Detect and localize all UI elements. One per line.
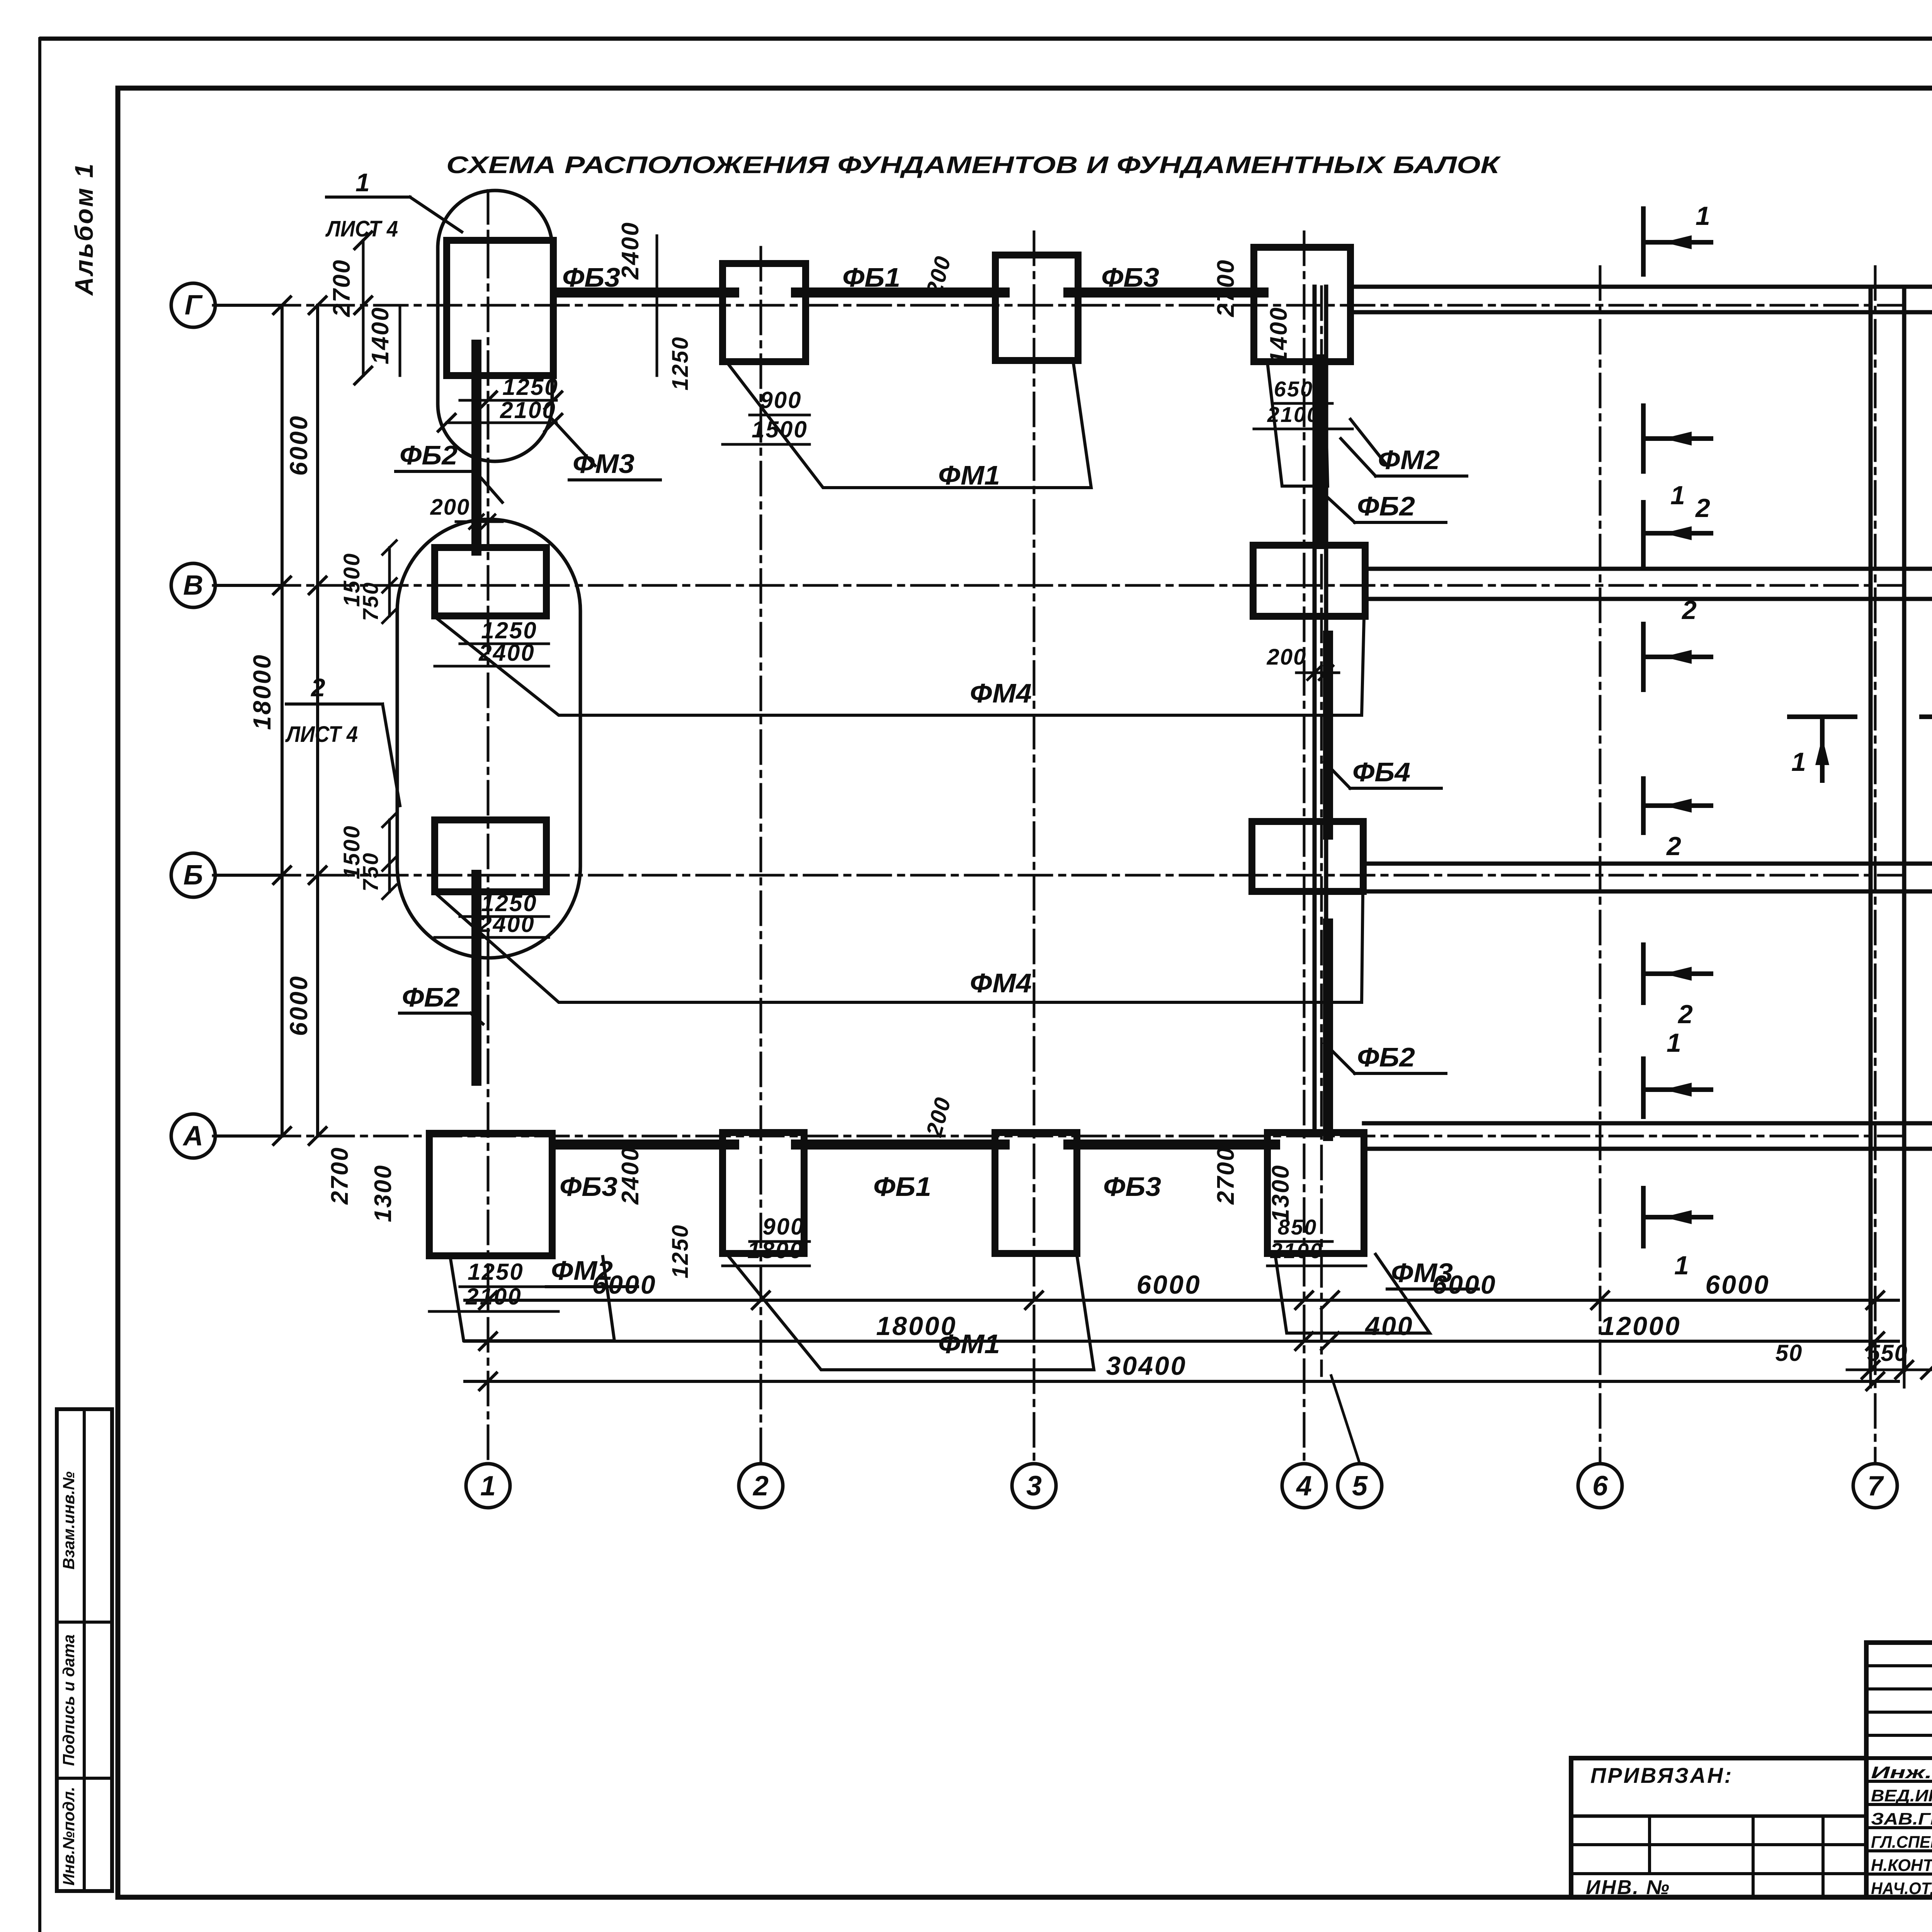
svg-text:2700: 2700 [328, 259, 355, 317]
svg-text:1: 1 [480, 1471, 496, 1502]
svg-text:ФБ3: ФБ3 [562, 262, 620, 293]
svg-text:ФМ3: ФМ3 [1391, 1258, 1453, 1288]
svg-text:2700: 2700 [1213, 1146, 1239, 1205]
svg-text:ФБ4: ФБ4 [1352, 757, 1410, 787]
svg-text:ЗАВ.ГР.: ЗАВ.ГР. [1871, 1810, 1932, 1828]
svg-text:2700: 2700 [1213, 259, 1239, 317]
svg-text:ФМ4: ФМ4 [970, 678, 1032, 708]
svg-text:2: 2 [1666, 832, 1681, 861]
svg-text:2: 2 [752, 1471, 769, 1502]
svg-text:В: В [183, 570, 203, 601]
svg-text:ФМ1: ФМ1 [938, 1329, 1000, 1359]
svg-text:2: 2 [310, 673, 325, 702]
svg-text:2: 2 [1677, 1000, 1693, 1029]
svg-text:1500: 1500 [752, 417, 808, 442]
svg-text:Н.КОНТР.: Н.КОНТР. [1871, 1856, 1932, 1875]
svg-text:Альбом 1: Альбом 1 [70, 162, 98, 296]
svg-text:ФМ2: ФМ2 [551, 1255, 613, 1286]
svg-text:1: 1 [1696, 201, 1710, 231]
svg-text:2400: 2400 [478, 640, 535, 666]
svg-text:200: 200 [1267, 645, 1307, 670]
svg-text:1800: 1800 [747, 1237, 803, 1263]
svg-text:Б: Б [184, 860, 203, 891]
svg-text:50: 50 [1776, 1340, 1803, 1366]
svg-text:1250: 1250 [502, 374, 558, 400]
svg-text:1400: 1400 [1265, 306, 1292, 364]
svg-text:550: 550 [1867, 1340, 1908, 1366]
svg-text:ГЛ.СПЕЦ.: ГЛ.СПЕЦ. [1871, 1833, 1932, 1852]
svg-text:ПРИВЯЗАН:: ПРИВЯЗАН: [1590, 1763, 1733, 1787]
svg-text:ФБ2: ФБ2 [1357, 491, 1415, 521]
svg-text:4: 4 [1296, 1471, 1312, 1502]
svg-text:1300: 1300 [1267, 1164, 1294, 1222]
svg-text:Г: Г [185, 290, 203, 321]
svg-text:2: 2 [1681, 595, 1697, 625]
svg-text:900: 900 [762, 1214, 804, 1240]
svg-text:6000: 6000 [285, 415, 313, 476]
svg-text:1250: 1250 [468, 1259, 524, 1285]
svg-text:2: 2 [1695, 493, 1710, 523]
svg-text:12000: 12000 [1600, 1311, 1681, 1341]
svg-text:1: 1 [1674, 1251, 1689, 1280]
svg-text:2400: 2400 [617, 1146, 644, 1205]
svg-text:2700: 2700 [327, 1146, 353, 1205]
svg-text:3: 3 [1026, 1471, 1042, 1502]
svg-text:ФБ3: ФБ3 [560, 1172, 617, 1202]
svg-text:2100: 2100 [1267, 402, 1320, 427]
svg-text:2400: 2400 [617, 221, 644, 280]
svg-text:400: 400 [1364, 1311, 1413, 1341]
svg-text:7: 7 [1867, 1471, 1884, 1502]
svg-text:ФБ2: ФБ2 [1357, 1042, 1415, 1072]
svg-text:ФБ1: ФБ1 [842, 262, 900, 293]
svg-text:ФБ3: ФБ3 [1103, 1172, 1161, 1202]
svg-text:2100: 2100 [500, 397, 556, 423]
svg-text:1250: 1250 [668, 1224, 693, 1278]
svg-text:1300: 1300 [370, 1164, 396, 1222]
svg-text:850: 850 [1278, 1215, 1317, 1239]
svg-text:900: 900 [760, 387, 802, 413]
svg-text:750: 750 [358, 852, 383, 891]
svg-text:ФМ4: ФМ4 [970, 968, 1032, 998]
svg-text:ФМ1: ФМ1 [938, 460, 1000, 490]
svg-text:ВЕД.ИН.: ВЕД.ИН. [1871, 1786, 1932, 1805]
svg-text:2100: 2100 [465, 1284, 522, 1310]
svg-text:6: 6 [1592, 1471, 1608, 1502]
svg-text:НАЧ.ОТД.: НАЧ.ОТД. [1871, 1879, 1932, 1898]
svg-text:1400: 1400 [367, 306, 394, 364]
svg-text:6000: 6000 [285, 975, 313, 1036]
svg-text:Взам.инв.№: Взам.инв.№ [60, 1471, 78, 1570]
svg-text:1: 1 [1791, 747, 1806, 777]
svg-text:ФБ1: ФБ1 [873, 1172, 931, 1202]
svg-text:200: 200 [430, 495, 470, 520]
svg-text:ФБ2: ФБ2 [400, 440, 457, 470]
svg-text:ИНВ. №: ИНВ. № [1586, 1876, 1670, 1899]
svg-text:ФМ2: ФМ2 [1378, 445, 1440, 475]
svg-text:ФМ3: ФМ3 [573, 449, 634, 479]
svg-text:6000: 6000 [1705, 1270, 1770, 1299]
svg-text:ФБ3: ФБ3 [1101, 262, 1159, 293]
svg-text:650: 650 [1274, 377, 1313, 401]
svg-text:750: 750 [358, 582, 383, 621]
svg-text:А: А [182, 1121, 203, 1151]
svg-text:ЛИСТ 4: ЛИСТ 4 [325, 216, 398, 241]
svg-text:2100: 2100 [1270, 1238, 1323, 1263]
svg-text:18000: 18000 [248, 653, 276, 730]
svg-text:1: 1 [355, 168, 370, 197]
svg-text:1250: 1250 [481, 617, 537, 643]
svg-text:СХЕМА РАСПОЛОЖЕНИЯ ФУНДАМЕНТ: СХЕМА РАСПОЛОЖЕНИЯ ФУНДАМЕНТОВ И ФУНДАМЕ… [446, 152, 1501, 179]
svg-text:6000: 6000 [1136, 1270, 1201, 1299]
svg-text:5: 5 [1352, 1471, 1368, 1502]
svg-text:Инв.№подл.: Инв.№подл. [60, 1787, 78, 1886]
svg-text:1250: 1250 [668, 336, 693, 390]
svg-text:Подпись и дата: Подпись и дата [60, 1634, 78, 1766]
svg-text:30400: 30400 [1106, 1351, 1187, 1381]
svg-text:1: 1 [1670, 481, 1685, 510]
svg-text:ФБ2: ФБ2 [402, 982, 460, 1012]
svg-text:2400: 2400 [478, 911, 535, 937]
svg-text:Инж. I: Инж. I [1871, 1763, 1932, 1782]
svg-text:1: 1 [1667, 1028, 1681, 1058]
svg-text:ЛИСТ 4: ЛИСТ 4 [285, 722, 358, 747]
